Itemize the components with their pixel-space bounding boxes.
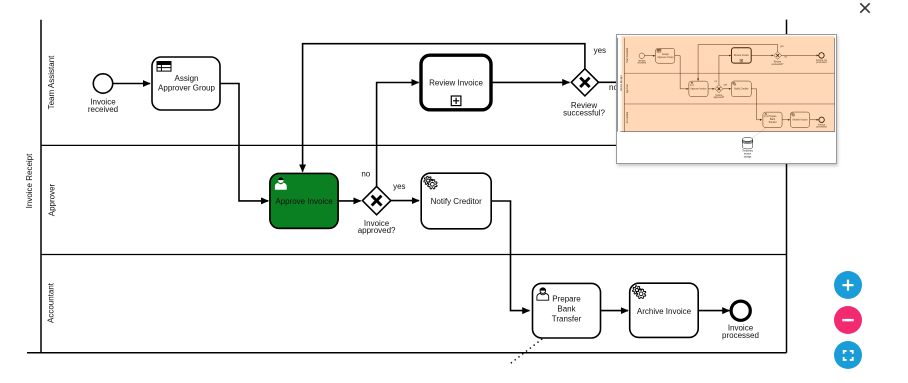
task Approve Invoice (green highlighted, main view) — [270, 174, 338, 229]
zoom out button — [834, 306, 862, 334]
svg-text:Approve Invoice: Approve Invoice — [275, 197, 333, 206]
orange viewport overlay — [621, 36, 834, 131]
zoom in button — [834, 271, 862, 299]
minimap popup panel — [616, 34, 837, 164]
miniature diagram — [617, 37, 834, 158]
fullscreen button — [834, 341, 862, 369]
close button — [856, 0, 874, 18]
